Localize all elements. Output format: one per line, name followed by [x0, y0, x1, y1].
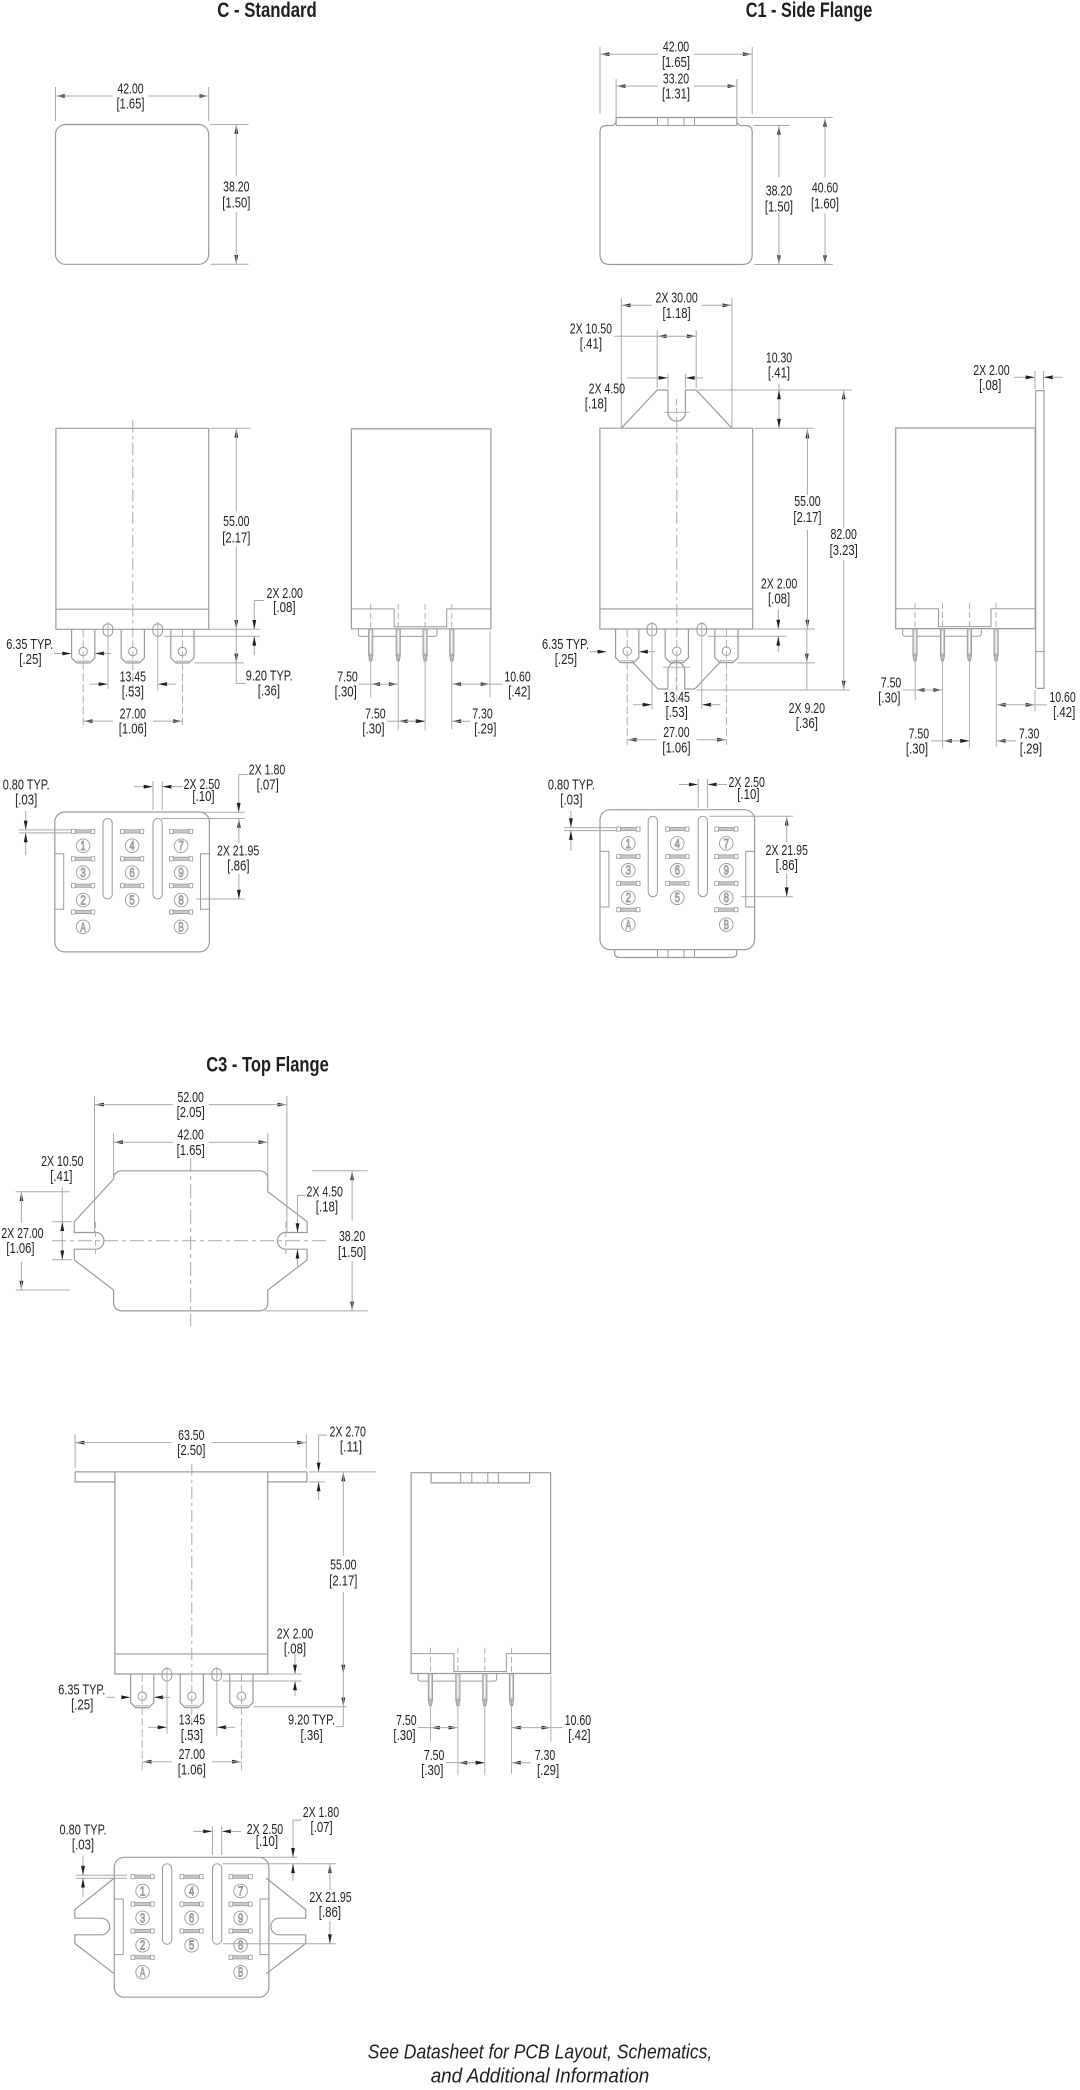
- svg-text:[.07]: [.07]: [311, 1819, 333, 1836]
- C3 front blade centerlines: [142, 1667, 241, 1770]
- svg-text:and Additional Information: and Additional Information: [431, 2066, 650, 2088]
- svg-text:2: 2: [626, 891, 631, 905]
- C1 front right extension lines: [697, 629, 851, 690]
- svg-text:[.36]: [.36]: [258, 682, 280, 699]
- C bottom dim 2X 1.80: [237, 762, 285, 813]
- svg-text:[.86]: [.86]: [776, 857, 798, 874]
- C3 top dim 38.20 extension lines: [265, 1171, 368, 1311]
- svg-text:[1.06]: [1.06]: [662, 739, 690, 756]
- C3 front flange bar: [75, 1472, 307, 1482]
- C1 front dim 2X 2.00: [761, 576, 797, 653]
- svg-text:[1.06]: [1.06]: [6, 1240, 34, 1257]
- C3 side flange bar: [431, 1473, 529, 1483]
- C1 front dim 55.00: [793, 428, 821, 629]
- C1 front blade centerlines: [627, 622, 726, 745]
- C1 side view pin base plate: [903, 629, 982, 637]
- svg-text:[.42]: [.42]: [568, 1727, 590, 1744]
- svg-text:[1.50]: [1.50]: [765, 199, 793, 216]
- svg-text:[1.60]: [1.60]: [811, 196, 839, 213]
- C1 top dim 40.60 extension line: [739, 117, 833, 119]
- C1 bottom flange bar: [615, 950, 737, 958]
- C front right extension lines: [164, 629, 260, 663]
- C3 top dim 42.00: [114, 1127, 268, 1159]
- svg-text:4: 4: [675, 837, 680, 851]
- C3 bottom view terminal bars: [131, 1875, 252, 1960]
- svg-text:2: 2: [80, 893, 85, 907]
- svg-text:[.10]: [.10]: [256, 1833, 278, 1850]
- C3 bottom dim 0.80 TYP: [60, 1822, 128, 1898]
- svg-text:[1.18]: [1.18]: [663, 305, 691, 322]
- svg-text:3: 3: [626, 864, 631, 878]
- C3 side view body: [411, 1473, 550, 1674]
- C3 side view pins: [428, 1648, 513, 1706]
- svg-text:C - Standard: C - Standard: [217, 0, 317, 22]
- svg-text:8: 8: [724, 891, 729, 905]
- C1 top dim 33.20: [616, 71, 737, 103]
- svg-text:[.86]: [.86]: [319, 1904, 341, 1921]
- svg-text:9: 9: [178, 866, 183, 880]
- C front dim 55.00 and 9.20 dim line: [222, 428, 250, 683]
- C1 side dim 7.50 second: [906, 725, 970, 757]
- C bottom view side notches: [55, 854, 210, 910]
- C front dim 13.45: [90, 669, 177, 701]
- C1 front top extension line: [754, 427, 814, 429]
- C3 front dim 27.00: [142, 1746, 241, 1778]
- C1 front dim 6.35 TYP: [542, 636, 655, 668]
- C1 bottom view pin numbers: [622, 837, 734, 932]
- svg-text:8: 8: [238, 1939, 243, 1953]
- C bottom view outline: [55, 812, 210, 952]
- svg-text:[.03]: [.03]: [72, 1837, 94, 1854]
- svg-text:[.30]: [.30]: [335, 684, 357, 701]
- svg-text:[1.50]: [1.50]: [338, 1244, 366, 1261]
- svg-text:B: B: [724, 918, 729, 932]
- C1 front dim 13.45: [633, 689, 720, 721]
- C3 front view small pins: [162, 1668, 221, 1681]
- svg-text:9: 9: [238, 1911, 243, 1925]
- C1 front dim 27.00: [627, 724, 726, 756]
- C3 top dim 38.20: [338, 1171, 366, 1311]
- C1 front view centerline: [676, 420, 678, 629]
- svg-text:[.03]: [.03]: [15, 792, 37, 809]
- svg-text:[1.65]: [1.65]: [662, 54, 690, 71]
- svg-text:5: 5: [675, 891, 680, 905]
- svg-text:[.53]: [.53]: [122, 684, 144, 701]
- svg-text:[.30]: [.30]: [362, 721, 384, 738]
- svg-text:38.20: 38.20: [223, 179, 249, 196]
- svg-text:[1.65]: [1.65]: [116, 96, 144, 113]
- C front dim 2X 2.00: [252, 585, 303, 655]
- C3 top view centerlines: [52, 1158, 330, 1326]
- svg-text:[1.50]: [1.50]: [222, 195, 250, 212]
- svg-text:[.42]: [.42]: [1053, 704, 1075, 721]
- svg-text:[1.06]: [1.06]: [119, 721, 147, 738]
- C1 top dim 40.60: [811, 118, 839, 265]
- C3 top dim 2X 27.00: [1, 1192, 43, 1290]
- C1 side dim 2X 2.00 extension lines: [1035, 371, 1044, 389]
- C side dim 7.50 second: [362, 706, 425, 738]
- svg-text:[.53]: [.53]: [666, 704, 688, 721]
- svg-text:B: B: [238, 1966, 243, 1980]
- C3 front text 9.20 TYP: [288, 1711, 335, 1744]
- C1 side flange plate: [1036, 391, 1044, 689]
- C1 front dim 82.00: [830, 390, 858, 690]
- svg-text:[.30]: [.30]: [878, 689, 900, 706]
- svg-text:[2.17]: [2.17]: [793, 509, 821, 526]
- svg-text:[.08]: [.08]: [273, 599, 295, 616]
- svg-text:[.10]: [.10]: [192, 788, 214, 805]
- C1 front view blade terminals: [616, 629, 738, 663]
- svg-text:[1.65]: [1.65]: [177, 1142, 205, 1159]
- C3 bottom view side notches: [114, 1899, 269, 1955]
- C1 top dim 38.20 extension lines: [754, 126, 833, 265]
- C side view pin base plate: [358, 629, 437, 637]
- svg-text:[.36]: [.36]: [796, 715, 818, 732]
- C bottom view pin numbers: [76, 839, 188, 934]
- svg-text:[.03]: [.03]: [560, 792, 582, 809]
- C1 front view small pins: [647, 623, 707, 636]
- C top view dim 42.00: [56, 80, 209, 112]
- svg-text:[.07]: [.07]: [257, 777, 279, 794]
- svg-text:6: 6: [129, 866, 134, 880]
- C1 bottom dim 2X 2.50: [679, 774, 765, 808]
- C front text 9.20 TYP: [246, 668, 293, 700]
- C bottom dim 0.80 TYP: [3, 777, 72, 856]
- C3 top dim 52.00: [95, 1089, 287, 1121]
- svg-text:A: A: [140, 1966, 146, 1980]
- svg-text:[2.17]: [2.17]: [329, 1573, 357, 1590]
- svg-text:[.25]: [.25]: [555, 651, 577, 668]
- C1 bottom flange trapezoid: [632, 662, 721, 690]
- svg-text:A: A: [80, 920, 86, 934]
- C1 front view body: [600, 428, 753, 629]
- C3 bottom dim 2X 2.50: [193, 1821, 283, 1855]
- svg-text:6: 6: [675, 864, 680, 878]
- C1 bottom flange notch center mark: [663, 659, 691, 690]
- C3 top dim 2X 27.00 extension lines: [16, 1192, 70, 1290]
- svg-text:82.00: 82.00: [831, 526, 857, 543]
- C1 bottom view terminal bars: [617, 827, 738, 912]
- C3 side dim 10.60: [512, 1712, 592, 1744]
- C1 top view flange bar: [616, 118, 737, 126]
- svg-text:3: 3: [80, 866, 85, 880]
- svg-text:[.30]: [.30]: [421, 1762, 443, 1779]
- C1 top dim 38.20: [765, 126, 793, 265]
- C1 top flange notch center mark: [664, 399, 690, 422]
- C bottom view terminal bars: [72, 829, 193, 914]
- C3 side dim 7.30: [468, 1747, 559, 1779]
- C side dim 7.30: [408, 706, 496, 738]
- C3 front view blade terminals: [131, 1674, 253, 1708]
- C3 side view pin base plate: [418, 1674, 497, 1682]
- C3 side pin extension lines: [430, 1676, 551, 1776]
- C1 side dim 7.30: [952, 725, 1042, 757]
- C1 top dim 42.00 extension lines: [600, 47, 752, 114]
- C1 bottom view outline: [600, 810, 755, 950]
- svg-text:8: 8: [178, 893, 183, 907]
- C1 front dim 2X 9.20: [789, 629, 825, 732]
- svg-text:5: 5: [129, 893, 134, 907]
- svg-text:[.29]: [.29]: [537, 1762, 559, 1779]
- C1 top dim 42.00: [600, 39, 752, 71]
- svg-text:7: 7: [238, 1884, 243, 1898]
- C3 bottom view outline: [114, 1857, 269, 1997]
- C top view dim 38.20 extension lines: [211, 125, 249, 265]
- svg-text:C3 - Top Flange: C3 - Top Flange: [206, 1054, 329, 1077]
- svg-text:[1.31]: [1.31]: [662, 86, 690, 103]
- svg-text:55.00: 55.00: [330, 1557, 356, 1574]
- C side pin extension lines: [371, 631, 490, 731]
- svg-text:4: 4: [129, 839, 134, 853]
- svg-text:[.41]: [.41]: [50, 1168, 72, 1185]
- svg-text:38.20: 38.20: [339, 1228, 365, 1245]
- C1 bottom view side notches: [600, 851, 755, 907]
- svg-text:[.42]: [.42]: [508, 684, 530, 701]
- svg-text:9.20 TYP.: 9.20 TYP.: [288, 1711, 335, 1728]
- svg-text:C1 - Side Flange: C1 - Side Flange: [746, 0, 873, 22]
- C1 top flange trapezoid: [621, 390, 732, 428]
- C3 front view centerline: [191, 1464, 193, 1674]
- svg-text:[.11]: [.11]: [340, 1438, 362, 1455]
- C3 top dim 42.00 extension lines: [114, 1133, 268, 1176]
- svg-text:[2.05]: [2.05]: [177, 1104, 205, 1121]
- C top view dim 42.00 extension lines: [56, 87, 209, 121]
- C1 front dim 2X 30.00 extension lines: [621, 298, 732, 427]
- C3 front dim 6.35 TYP: [58, 1682, 170, 1714]
- svg-text:[.08]: [.08]: [284, 1640, 306, 1657]
- C front dim 55.00 extension line: [211, 427, 251, 429]
- svg-text:[.25]: [.25]: [71, 1697, 93, 1714]
- svg-text:[3.23]: [3.23]: [830, 542, 858, 559]
- C front dim 27.00: [83, 706, 182, 738]
- C side dim 7.50 first: [335, 669, 399, 701]
- C1 side dim 10.60: [996, 689, 1075, 721]
- C1 front dim 10.30 extension line: [698, 389, 852, 391]
- svg-text:See Datasheet for PCB Layout,: See Datasheet for PCB Layout, Schematics…: [368, 2042, 712, 2064]
- svg-text:[.18]: [.18]: [316, 1199, 338, 1216]
- svg-text:[.08]: [.08]: [768, 590, 790, 607]
- C1 bottom dim 2X 21.95 extension lines: [710, 816, 794, 897]
- C1 front dim 10.30: [766, 350, 792, 429]
- svg-text:B: B: [178, 920, 183, 934]
- C3 top dim 2X 4.50: [296, 1184, 343, 1266]
- C side dim 10.60: [452, 669, 531, 701]
- svg-text:[.10]: [.10]: [737, 786, 759, 803]
- C front view body: [56, 428, 209, 629]
- C3 top dim 52.00 extension lines: [95, 1096, 287, 1233]
- C1 front dim 2X 4.50: [585, 374, 703, 413]
- C3 front dim 2X 2.70: [317, 1423, 366, 1500]
- svg-text:6: 6: [189, 1911, 194, 1925]
- C3 front right extension lines: [223, 1674, 348, 1707]
- C front view centerline: [132, 420, 134, 629]
- svg-text:[.29]: [.29]: [1020, 740, 1042, 757]
- C3 bottom view key slots: [163, 1864, 222, 1945]
- C bottom view key slots: [103, 819, 162, 900]
- C1 side dim 7.50 first: [878, 674, 942, 706]
- C1 side pin extension lines: [915, 655, 1035, 749]
- C1 front dim 2X 30.00: [621, 290, 732, 322]
- svg-text:[.30]: [.30]: [906, 740, 928, 757]
- svg-text:[.41]: [.41]: [580, 336, 602, 353]
- C3 front flange extension lines: [309, 1472, 376, 1482]
- C1 side view body: [896, 428, 1035, 629]
- svg-text:55.00: 55.00: [223, 513, 249, 530]
- C3 bottom right wing: [266, 1878, 306, 1974]
- C bottom dim 2X 21.95: [217, 819, 259, 900]
- C3 side dim 7.50 first: [393, 1712, 458, 1744]
- C3 bottom dim 2X 21.95 extension lines: [223, 1857, 336, 1943]
- C front view blade centerlines: [83, 622, 182, 726]
- C3 front view body: [115, 1472, 268, 1674]
- svg-text:4: 4: [189, 1884, 194, 1898]
- svg-text:40.60: 40.60: [812, 180, 838, 197]
- svg-text:[2.17]: [2.17]: [222, 529, 250, 546]
- svg-text:A: A: [626, 918, 632, 932]
- C3 front dim 13.45: [148, 1712, 235, 1744]
- svg-text:[.25]: [.25]: [19, 651, 41, 668]
- C1 bottom view key slots: [648, 816, 707, 897]
- C1 bottom dim 0.80 TYP: [548, 777, 617, 852]
- svg-text:[.29]: [.29]: [474, 721, 496, 738]
- C bottom dim 2X 2.50: [134, 776, 220, 810]
- C3 front dim 55.00 and 9.20: [329, 1472, 357, 1727]
- C front view blade terminals: [72, 629, 194, 663]
- C1 front dim 2X 10.50: [570, 321, 697, 353]
- C1 bottom dim 2X 21.95: [766, 816, 808, 897]
- svg-text:1: 1: [80, 839, 85, 853]
- svg-text:55.00: 55.00: [794, 493, 820, 510]
- C1 front dim 2X 10.50 extension lines: [657, 330, 696, 388]
- svg-text:2: 2: [140, 1939, 145, 1953]
- svg-text:[.86]: [.86]: [227, 858, 249, 875]
- svg-text:7: 7: [724, 837, 729, 851]
- C front dim 6.35 TYP: [6, 636, 111, 668]
- svg-text:5: 5: [189, 1939, 194, 1953]
- svg-text:[.36]: [.36]: [301, 1727, 323, 1744]
- svg-text:[.53]: [.53]: [181, 1727, 203, 1744]
- C top view case outline: [56, 125, 209, 265]
- C top view dim 38.20: [222, 125, 250, 265]
- svg-text:7: 7: [178, 839, 183, 853]
- svg-text:38.20: 38.20: [766, 182, 792, 199]
- C3 side dim 7.50 second: [421, 1747, 485, 1779]
- C3 front dim 2X 2.00: [277, 1625, 313, 1696]
- svg-text:[.18]: [.18]: [585, 396, 607, 413]
- svg-text:[.08]: [.08]: [979, 377, 1001, 394]
- svg-text:[2.50]: [2.50]: [177, 1442, 205, 1459]
- C bottom dim 2X 21.95 extension lines: [162, 812, 245, 899]
- svg-text:9: 9: [724, 864, 729, 878]
- C3 bottom left wing: [75, 1878, 115, 1974]
- C side view body: [351, 429, 491, 629]
- C3 front dim 63.50: [75, 1427, 306, 1459]
- C3 top dim 2X 10.50: [41, 1153, 83, 1260]
- C1 side dim 2X 2.00: [973, 362, 1062, 394]
- C3 top view flange plate outline: [74, 1171, 307, 1311]
- svg-text:3: 3: [140, 1911, 145, 1925]
- svg-text:1: 1: [626, 837, 631, 851]
- svg-text:[.30]: [.30]: [393, 1727, 415, 1744]
- svg-text:[.41]: [.41]: [768, 365, 790, 382]
- C side view pins: [369, 604, 454, 661]
- C3 front dim 63.50 extension lines: [75, 1434, 306, 1468]
- C1 top dim 33.20 extension lines: [616, 79, 737, 117]
- svg-text:[1.06]: [1.06]: [178, 1761, 206, 1778]
- C front view small pins: [103, 624, 162, 637]
- C3 bottom dim 2X 1.80: [291, 1804, 339, 1881]
- C3 bottom dim 2X 21.95: [309, 1864, 351, 1944]
- C1 side view pins: [913, 603, 998, 661]
- svg-text:1: 1: [140, 1884, 145, 1898]
- C1 top view case outline: [600, 126, 752, 265]
- C3 bottom view pin numbers: [136, 1884, 248, 1979]
